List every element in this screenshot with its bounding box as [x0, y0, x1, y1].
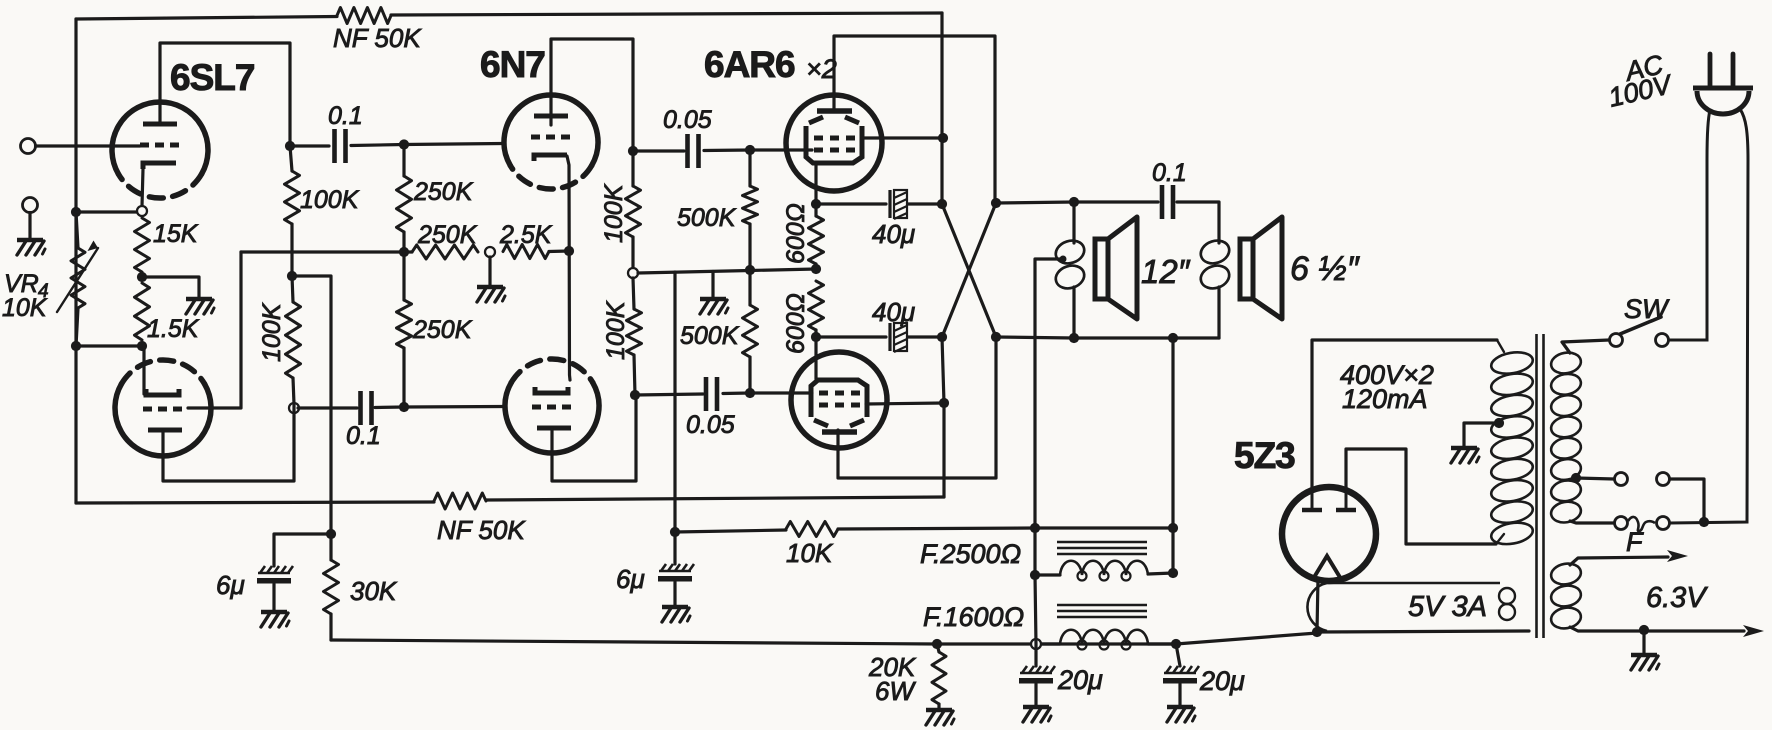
- svg-text:6SL7: 6SL7: [170, 57, 254, 98]
- label 0.05 upper: [663, 106, 712, 134]
- label 30K: [350, 576, 398, 606]
- wire F1600 right lead: [1148, 642, 1176, 645]
- svg-text:6 ½″: 6 ½″: [1290, 250, 1360, 288]
- wire 30K top: [329, 534, 332, 560]
- junction 500K lower bottom: [745, 388, 755, 398]
- resistor NF 50K (lower feedback): [434, 493, 486, 509]
- wire 6AR6a plate loop: [834, 36, 995, 203]
- svg-text:×2: ×2: [806, 54, 837, 84]
- wire rail to cathode node: [76, 210, 142, 213]
- junction screen/B+ rail: [938, 133, 948, 143]
- ground 6.3V: [1631, 655, 1659, 670]
- wire selector to fuse line: [1670, 479, 1704, 522]
- resistor 500K upper: [743, 186, 758, 224]
- wire 40u lower to X node: [908, 335, 941, 338]
- svg-text:12″: 12″: [1141, 253, 1191, 290]
- ground mid bus: [700, 299, 728, 314]
- svg-text:6μ: 6μ: [616, 564, 645, 594]
- label 5V 3A: [1408, 591, 1487, 623]
- wire 6N7b plate loop: [552, 395, 636, 481]
- wire 40u to X node: [908, 202, 942, 205]
- ground 20u second: [1167, 707, 1195, 722]
- label 250K lower: [412, 316, 473, 344]
- 5Z3 plate left: [1302, 489, 1322, 510]
- svg-text:NF 50K: NF 50K: [437, 515, 526, 545]
- label 500K upper: [677, 204, 737, 232]
- wire left rail vertical: [74, 19, 77, 503]
- capacitor 6u first: [257, 566, 293, 584]
- svg-text:2.5K: 2.5K: [499, 221, 553, 249]
- capacitor 40u upper bypass: [890, 190, 907, 219]
- svg-text:100K: 100K: [602, 300, 630, 360]
- selector terminals: [1615, 473, 1670, 486]
- label 100K rotated lower: [602, 300, 630, 360]
- label AC: [1621, 49, 1667, 87]
- wire X to screen rail lower: [942, 337, 944, 497]
- node open circle divider tap: [485, 247, 495, 257]
- 5Z3 filament: [1313, 556, 1341, 579]
- svg-text:40μ: 40μ: [872, 297, 915, 327]
- junction X top-left: [937, 199, 947, 209]
- junction cathode/40u upper: [811, 199, 821, 209]
- resistor 15K: [135, 218, 150, 272]
- resistor 20K 6W bleeder: [932, 652, 946, 704]
- svg-text:20μ: 20μ: [1199, 666, 1245, 696]
- wire cathode to 600ohm: [814, 204, 817, 216]
- plug AC body: [1693, 88, 1753, 114]
- node open circle F1600 left: [1031, 639, 1041, 649]
- switch SW terminals: [1610, 334, 1669, 347]
- junction 250K bus: [399, 247, 409, 257]
- junction 10K right: [1168, 523, 1178, 533]
- wire cathode to 40u: [816, 202, 886, 205]
- transformer core: [1537, 334, 1544, 638]
- potentiometer VR4 10K: [71, 248, 85, 308]
- resistor 250K 6N7 grid lower: [397, 300, 412, 348]
- resistor 500K lower: [743, 305, 758, 357]
- wire 6u to ground: [272, 584, 275, 610]
- junction screen lower: [939, 398, 949, 408]
- label 20u second: [1199, 666, 1245, 696]
- junction 15K/1.5K: [137, 272, 147, 282]
- label 100K rotated left: [258, 302, 286, 362]
- wire 6SL7b grid to feedback: [188, 252, 241, 408]
- tube 6SL7 upper triode: [112, 102, 208, 198]
- wire cathode link vertical: [567, 156, 570, 380]
- svg-text:500K: 500K: [677, 204, 737, 232]
- wire 0.1 node to 250K: [402, 145, 405, 177]
- wire mid bus to 500K lower: [748, 270, 751, 305]
- wire 6SL7a cathode lead: [142, 169, 143, 206]
- junction 0.1/250K node: [399, 139, 409, 149]
- transformer HV secondary winding: [1490, 349, 1535, 547]
- capacitor 40u lower bypass: [890, 323, 907, 352]
- svg-text:30K: 30K: [350, 576, 398, 606]
- svg-text:F.2500Ω: F.2500Ω: [920, 539, 1021, 569]
- wire VR4 bottom: [76, 308, 78, 346]
- wire SW to plug: [1669, 110, 1710, 340]
- junction 6.3V ground: [1639, 625, 1649, 635]
- junction F1600 right: [1171, 639, 1181, 649]
- terminal input jack hot: [21, 139, 36, 154]
- svg-text:100K: 100K: [258, 302, 286, 362]
- wire junction to ground stub: [142, 277, 199, 297]
- resistor 100K 6N7a load: [626, 186, 641, 237]
- label 6.3V: [1646, 582, 1708, 614]
- wire input to 6SL7 grid: [36, 144, 141, 147]
- svg-text:250K: 250K: [413, 178, 474, 206]
- label 600ohm rotated upper: [782, 203, 810, 264]
- svg-text:0.1: 0.1: [328, 102, 363, 130]
- resistor 100K 6N7b load: [627, 309, 642, 355]
- wire 100K to open node: [631, 237, 634, 268]
- wire crossover diagonal A: [942, 204, 996, 337]
- junction plate node: [285, 141, 295, 151]
- junction speaker bottom left: [1069, 333, 1079, 343]
- junction cathode/40u lower: [811, 332, 821, 342]
- label 10K VR4: [2, 294, 48, 322]
- label 100V: [1606, 69, 1677, 113]
- fuse F terminals: [1615, 517, 1670, 530]
- capacitor 20u second: [1163, 666, 1199, 684]
- wire 6SL7a plate to coupling node: [160, 43, 290, 146]
- wire F1600 left lead: [1036, 642, 1060, 645]
- resistor 1.5K: [135, 283, 150, 340]
- terminal input jack ground: [23, 198, 38, 213]
- junction HV center tap: [1494, 418, 1504, 428]
- wire 5V rail segment: [1317, 631, 1529, 632]
- ground 6u second: [662, 607, 690, 622]
- svg-text:6μ: 6μ: [216, 570, 245, 600]
- svg-text:100K: 100K: [600, 183, 628, 243]
- wire bus ground stub: [711, 272, 714, 298]
- wire B+ top rail right segment: [391, 13, 942, 15]
- svg-text:10K: 10K: [2, 294, 48, 322]
- svg-text:0.05: 0.05: [663, 106, 712, 134]
- tube 6N7 lower triode: [505, 359, 599, 453]
- speaker 6.5 inch: [1240, 217, 1282, 319]
- resistor 30K: [324, 560, 339, 614]
- tube 6AR6 upper: [786, 95, 882, 191]
- junction X bottom-right: [991, 332, 1001, 342]
- svg-text:15K: 15K: [153, 220, 199, 248]
- wire top to 12in coil: [1072, 202, 1075, 243]
- junction X top-right: [991, 198, 1001, 208]
- resistor NF 50K (top feedback): [337, 8, 391, 24]
- wire 5Z3 right plate to HV bottom: [1346, 449, 1496, 544]
- capacitor 0.1 second coupling: [361, 391, 372, 425]
- resistor 600ohm upper: [809, 216, 824, 264]
- wire F2500 left lead: [1035, 573, 1060, 576]
- switch SW lever: [1620, 317, 1661, 334]
- winding 5V 3A loop: [1307, 583, 1500, 631]
- wire B+ top rail left segment: [76, 17, 337, 20]
- wire bottom NF rail right: [486, 497, 944, 500]
- label 6.5 inch: [1290, 250, 1360, 288]
- label 250K upper: [413, 178, 474, 206]
- label 2.5K: [499, 221, 553, 249]
- svg-text:0.1: 0.1: [1152, 159, 1187, 187]
- wire bleeder to ground: [937, 704, 940, 708]
- svg-text:6N7: 6N7: [480, 44, 545, 85]
- label 0.1 first: [328, 102, 363, 130]
- wire 5Z3 left plate to HV top: [1312, 340, 1497, 489]
- junction 30K/6u: [326, 529, 336, 539]
- wire open node to 100K lower: [633, 278, 634, 309]
- junction X bottom-left: [937, 332, 947, 342]
- wire 2.5K to cathode line: [549, 249, 569, 253]
- capacitor 20u first: [1019, 666, 1055, 684]
- wire tap to ground: [488, 257, 491, 285]
- wire 6AR6b cathode lead: [814, 337, 817, 379]
- tube 6N7 upper triode: [504, 95, 598, 189]
- wire B+ rail drop: [940, 13, 943, 204]
- arrow VR4 wiper: [57, 241, 98, 313]
- wire primary tap to selector: [1576, 478, 1614, 479]
- wire primary bottom to fuse: [1570, 521, 1614, 523]
- label 250K horizontal: [417, 221, 478, 249]
- label F.2500: [920, 539, 1021, 569]
- label 6u first: [216, 570, 245, 600]
- wire primary top to SW: [1562, 340, 1609, 353]
- wire cathode lower to 40u: [816, 335, 886, 338]
- wire feedback bus: [241, 250, 412, 253]
- wire 6AR6b plate loop: [838, 337, 996, 478]
- svg-text:5Z3: 5Z3: [1234, 435, 1295, 476]
- resistor 250K series horizontal: [412, 245, 478, 259]
- node open circle decoupling mid: [628, 268, 638, 278]
- wire 250K to bus: [402, 232, 405, 252]
- wire 0.1 to 6.5in coil: [1177, 202, 1219, 243]
- wire bottom NF rail left: [76, 502, 434, 503]
- ground cathode chain: [186, 299, 214, 314]
- speaker 12 inch: [1095, 217, 1137, 319]
- label 6AR6: [704, 44, 795, 85]
- svg-text:120mA: 120mA: [1342, 384, 1428, 414]
- junction cathode/2.5K: [564, 246, 574, 256]
- junction 12in coil tap: [1060, 256, 1067, 263]
- label 6SL7: [170, 57, 254, 98]
- junction speaker top left: [1069, 197, 1079, 207]
- tube 5Z3 rectifier: [1282, 487, 1376, 581]
- label 600ohm rotated lower: [782, 293, 810, 354]
- 5Z3 plate right: [1336, 489, 1356, 510]
- wire decoupling branch to 30K line: [292, 276, 331, 532]
- svg-text:F.1600Ω: F.1600Ω: [923, 602, 1024, 632]
- label 400Vx2: [1340, 360, 1434, 390]
- svg-text:600Ω: 600Ω: [782, 293, 810, 354]
- svg-text:500K: 500K: [680, 322, 740, 350]
- wire 5Z3 filament lead: [1317, 578, 1318, 632]
- wire crossover diagonal B: [942, 203, 996, 337]
- junction 6N7b plate node: [630, 390, 640, 400]
- wire 250K lower to 0.1 node: [402, 348, 405, 407]
- wire 500K lower to junction: [748, 357, 751, 393]
- wire 500K to mid bus: [748, 224, 751, 270]
- wire 6N7a plate loop: [551, 39, 633, 151]
- junction 500K mid bus: [745, 265, 755, 275]
- wire 20u second lead: [1176, 644, 1180, 666]
- resistor 2.5K horizontal: [503, 245, 549, 259]
- wire 6.3V top lead: [1570, 550, 1688, 565]
- label SW: [1624, 294, 1670, 324]
- wire bleeder top: [937, 644, 939, 652]
- plug AC prongs: [1710, 54, 1733, 88]
- ground input jack: [17, 240, 45, 255]
- capacitor 0.05 upper coupling: [688, 134, 699, 168]
- svg-text:F: F: [1626, 527, 1644, 557]
- wire 10K bus right: [838, 528, 1173, 529]
- capacitor 0.1 first coupling: [335, 129, 346, 163]
- wire field supply vertical: [1035, 528, 1036, 666]
- fuse F element: [1628, 517, 1655, 531]
- wire top to 0.1 cap: [1074, 200, 1158, 203]
- wire 0.05 to 6AR6 grid: [704, 148, 812, 152]
- wire plug right lead: [1670, 109, 1748, 523]
- label 6N7: [480, 44, 545, 85]
- capacitor 0.05 lower coupling: [706, 377, 717, 411]
- ground 20u first: [1023, 707, 1051, 722]
- label 100K rotated upper: [600, 183, 628, 243]
- junction 600ohm mid: [811, 264, 821, 274]
- wire 6.5in coil bottom: [1217, 287, 1220, 338]
- svg-text:10K: 10K: [786, 538, 834, 568]
- junction bleeder: [932, 639, 942, 649]
- svg-text:6.3V: 6.3V: [1646, 582, 1708, 614]
- label 500K lower: [680, 322, 740, 350]
- label NF 50K: [333, 23, 422, 53]
- wire 100K lower to plate node: [293, 378, 294, 404]
- resistor 10K: [786, 522, 838, 537]
- wire junction to 500K: [748, 150, 751, 186]
- tube 6AR6 lower: [791, 352, 887, 448]
- svg-text:250K: 250K: [412, 316, 473, 344]
- label NF 50K lower: [437, 515, 526, 545]
- wire 100K to junction: [290, 224, 293, 276]
- label 5Z3: [1234, 435, 1295, 476]
- wire 12in coil bottom: [1072, 287, 1075, 338]
- label 120mA: [1342, 384, 1428, 414]
- capacitor 6u second: [658, 564, 694, 582]
- label 20u first: [1057, 665, 1103, 695]
- choke field coil F.2500 core: [1057, 542, 1147, 554]
- junction 500K upper top: [745, 145, 755, 155]
- label 0.1 tweeter: [1152, 159, 1187, 187]
- ground 6u first: [261, 612, 289, 627]
- wire grid-leak bus: [638, 269, 816, 273]
- wire 30K bottom: [329, 614, 332, 640]
- svg-text:40μ: 40μ: [872, 219, 915, 249]
- wire HV bottom connect: [1496, 534, 1504, 544]
- resistor 100K decoupling lower: [286, 302, 301, 378]
- svg-text:6W: 6W: [875, 676, 916, 706]
- wire node to 100K: [290, 146, 292, 171]
- wire cap to 6N7b grid: [375, 407, 504, 408]
- wire ground bus bottom: [331, 633, 1317, 644]
- junction F2500 left: [1030, 570, 1040, 580]
- svg-text:SW: SW: [1624, 294, 1670, 324]
- coil 12in voice coil: [1053, 237, 1087, 292]
- wire F2500 right lead: [1148, 573, 1173, 574]
- wire junction to left rail: [76, 344, 142, 347]
- tube 6SL7 lower triode: [115, 360, 211, 456]
- wire plate node to cap 0.1 lower: [298, 406, 357, 409]
- label 40u upper: [872, 219, 915, 249]
- wire 600ohm lower to cathode node: [814, 330, 817, 337]
- junction rail/VR4 bottom: [71, 341, 81, 351]
- transformer primary winding: [1549, 350, 1582, 524]
- label 40u lower: [872, 297, 915, 327]
- wire X to speaker top: [996, 202, 1074, 203]
- wire HV center tap: [1464, 423, 1499, 446]
- junction rail/VR4 top: [71, 207, 81, 217]
- wire HV top connect: [1497, 340, 1504, 352]
- wire 6N7b node to 0.05 lower: [635, 394, 703, 395]
- ground bleeder: [926, 710, 954, 725]
- wire 30K line to 6u: [274, 534, 331, 566]
- label 6W: [875, 676, 916, 706]
- junction 1.5K bottom: [137, 341, 147, 351]
- svg-text:100K: 100K: [300, 186, 360, 214]
- wire plate node to 0.05: [633, 149, 684, 152]
- junction 250K/0.1 lower: [399, 402, 409, 412]
- node open circle 6SL7a cathode: [137, 206, 147, 216]
- svg-text:20μ: 20μ: [1057, 665, 1103, 695]
- wire 6AR6a cathode lead: [814, 164, 817, 204]
- wire node to cap 0.1: [290, 144, 329, 147]
- label F.1600: [923, 602, 1024, 632]
- choke field coil F.2500 winding: [1060, 561, 1148, 581]
- wire 6u second to ground: [673, 582, 676, 605]
- wire 10K bus to 6u second: [673, 532, 676, 564]
- label 15K: [153, 220, 199, 248]
- wire 0.05 lower to 6AR6b grid: [723, 391, 812, 395]
- junction 6N7a plate node: [628, 146, 638, 156]
- choke field coil F.1600 core: [1057, 605, 1147, 617]
- wire 6AR6a screen to rail: [862, 136, 943, 139]
- ground divider tap: [477, 287, 505, 302]
- winding 5V loops: [1499, 588, 1515, 620]
- label 0.05 lower: [686, 411, 735, 439]
- junction 10K/field tap: [1030, 523, 1040, 533]
- svg-text:0.1: 0.1: [346, 422, 381, 450]
- wire 6AR6b screen wire: [866, 403, 944, 404]
- node open circle 6SL7b plate: [289, 403, 299, 413]
- svg-text:0.05: 0.05: [686, 411, 735, 439]
- junction fuse/selector: [1699, 517, 1709, 527]
- resistor 600ohm lower: [809, 281, 824, 330]
- wire 10K bus left: [675, 530, 786, 532]
- label 20K: [868, 652, 917, 682]
- junction field line top: [1168, 333, 1178, 343]
- junction 10K bus left: [670, 527, 680, 537]
- wire 6.3V bottom lead: [1570, 625, 1764, 637]
- wire terminal to ground: [28, 213, 31, 239]
- wire 100K lower to plate node: [634, 355, 635, 395]
- coil 6.5in voice coil: [1198, 237, 1232, 292]
- label 10K: [786, 538, 834, 568]
- transformer 6.3V winding: [1549, 561, 1582, 630]
- wire 20u first ground lead: [1034, 684, 1037, 705]
- junction 100K/decoupling: [287, 271, 297, 281]
- label 12 inch: [1141, 253, 1191, 290]
- label 6u second: [616, 564, 645, 594]
- wire cap to 6N7 grid: [351, 144, 503, 146]
- wire 600ohm to mid: [814, 264, 817, 269]
- svg-text:5V 3A: 5V 3A: [1408, 591, 1487, 623]
- wire 6SL7b cathode lead: [142, 346, 145, 394]
- resistor 100K 6SL7 plate load: [285, 171, 300, 224]
